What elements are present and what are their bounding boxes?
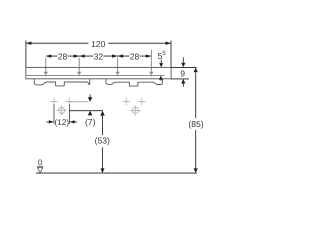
svg-text:(53): (53)	[95, 135, 110, 145]
svg-text:(7): (7)	[85, 117, 96, 127]
svg-text:120: 120	[91, 39, 106, 49]
svg-text:28: 28	[130, 52, 140, 62]
svg-text:5: 5	[162, 50, 166, 57]
svg-text:28: 28	[58, 52, 68, 62]
svg-text:0: 0	[38, 158, 43, 167]
svg-text:(12): (12)	[55, 118, 70, 127]
svg-text:32: 32	[94, 52, 104, 62]
svg-text:9: 9	[180, 68, 185, 78]
svg-text:(85): (85)	[188, 119, 203, 129]
